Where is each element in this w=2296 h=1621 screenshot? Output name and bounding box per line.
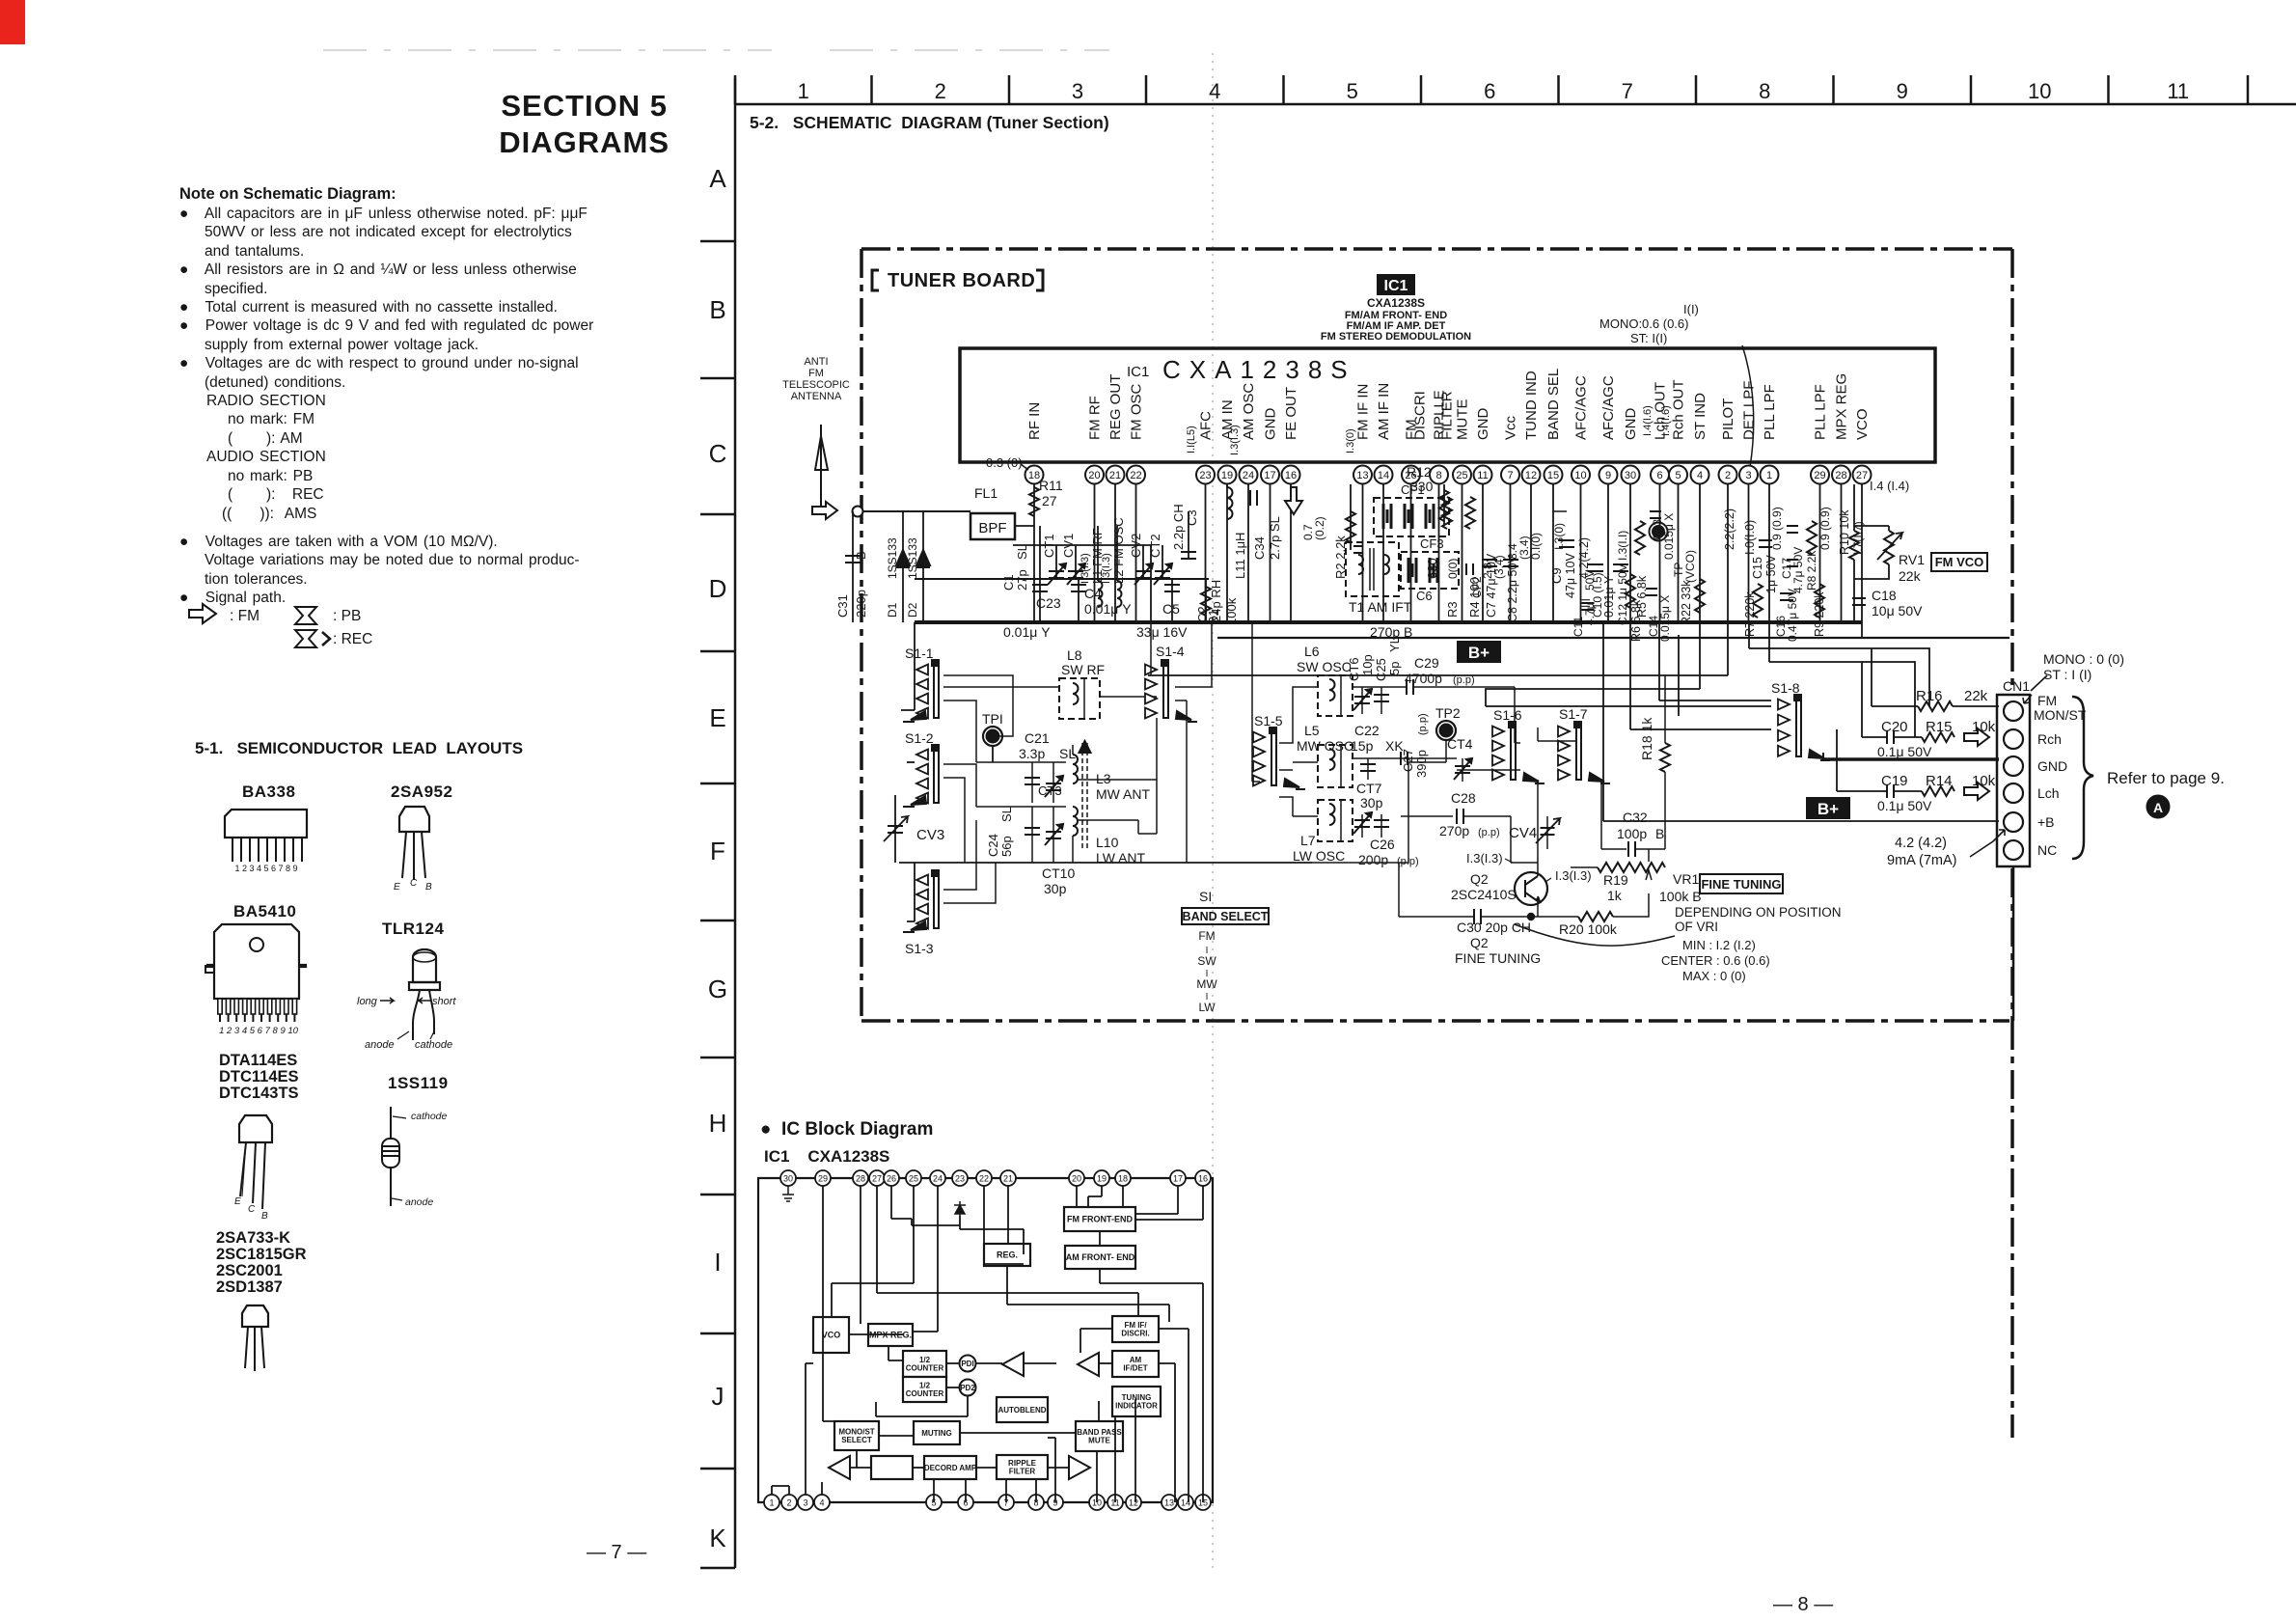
coil L2 FM OSC — [1101, 517, 1126, 607]
svg-text:MONO:0.6 (0.6): MONO:0.6 (0.6) — [1599, 316, 1688, 331]
varicap CV3 — [884, 795, 944, 863]
svg-text:DISCRI.: DISCRI. — [1121, 1330, 1149, 1338]
svg-text:B: B — [425, 882, 432, 893]
capacitor C22 — [1351, 723, 1404, 780]
svg-text:PLL LPF: PLL LPF — [1813, 384, 1829, 440]
svg-text:R9 220k: R9 220k — [1813, 591, 1826, 637]
svg-text:390p: 390p — [1414, 750, 1429, 778]
capacitor CF2 — [1466, 563, 1484, 598]
svg-text:7: 7 — [1622, 79, 1633, 103]
svg-text:R20 100k: R20 100k — [1559, 921, 1618, 937]
block diagram wires — [772, 1186, 1203, 1502]
svg-text:GND: GND — [1623, 408, 1639, 441]
svg-text:CV2: CV2 — [1129, 534, 1143, 558]
coil L1 FM RF — [1080, 526, 1105, 607]
svg-text:56p: 56p — [999, 836, 1014, 857]
svg-text:FILTER: FILTER — [1009, 1468, 1036, 1476]
svg-text:TUNER BOARD: TUNER BOARD — [888, 270, 1035, 291]
svg-text:R12: R12 — [1407, 464, 1432, 480]
potentiometer RV1 — [1854, 526, 1925, 584]
svg-text:0.015μ X: 0.015μ X — [1662, 513, 1676, 560]
svg-text:2.2p CH: 2.2p CH — [1171, 504, 1186, 550]
scan top edge artifact — [323, 49, 1109, 51]
refer brace — [2072, 697, 2225, 859]
svg-text:0.01μ Y: 0.01μ Y — [1602, 575, 1616, 618]
svg-text:C29: C29 — [1414, 655, 1439, 671]
diode D1 — [886, 511, 910, 622]
svg-text:2SA733-K: 2SA733-K — [216, 1229, 290, 1247]
block: unnamed — [871, 1456, 913, 1479]
svg-text:ANTENNA: ANTENNA — [791, 391, 842, 402]
capacitor C26 — [1358, 837, 1419, 867]
svg-text:I.3(0): I.3(0) — [1345, 428, 1356, 453]
svg-text:IC1: IC1 — [1127, 364, 1149, 380]
test point TP VCO — [1650, 523, 1698, 584]
transistors 2SA733-K group — [216, 1229, 307, 1371]
svg-text:LW OSC: LW OSC — [1293, 848, 1345, 864]
svg-text:FINE TUNING: FINE TUNING — [1455, 950, 1541, 966]
block: AM IF DET — [1112, 1351, 1159, 1377]
svg-text:C21: C21 — [1025, 730, 1050, 746]
svg-text:AFC/AGC: AFC/AGC — [1600, 375, 1617, 440]
svg-text:100p: 100p — [1617, 826, 1647, 841]
svg-text:C18: C18 — [1872, 588, 1897, 603]
svg-text:9mA (7mA): 9mA (7mA) — [1887, 853, 1957, 868]
svg-text:30: 30 — [783, 1174, 793, 1184]
svg-text:Rch: Rch — [2037, 731, 2062, 747]
svg-text:2SC2410S: 2SC2410S — [1451, 887, 1517, 902]
svg-text:K: K — [709, 1524, 726, 1552]
trimmer CT10 — [899, 863, 1312, 896]
svg-text:R19: R19 — [1603, 872, 1628, 888]
svg-text:(p.p): (p.p) — [1417, 713, 1429, 735]
resistor R12 — [1407, 464, 1449, 526]
svg-text:B: B — [261, 1211, 268, 1222]
capacitor C10 — [1579, 564, 1616, 618]
svg-text:FE OUT: FE OUT — [1283, 387, 1299, 440]
svg-text:PD2: PD2 — [960, 1384, 975, 1392]
svg-text:1SS119: 1SS119 — [388, 1074, 449, 1092]
svg-text:DEPENDING ON POSITION: DEPENDING ON POSITION — [1675, 905, 1842, 920]
svg-text:13: 13 — [1356, 470, 1368, 481]
svg-text:MONO/ST: MONO/ST — [838, 1427, 874, 1436]
svg-text:10μ 50V: 10μ 50V — [1872, 603, 1923, 618]
resistor R16 — [1872, 648, 1999, 711]
svg-text:R3: R3 — [1445, 601, 1460, 618]
svg-text:(p.p): (p.p) — [1478, 827, 1500, 838]
svg-text:B+: B+ — [1468, 644, 1490, 662]
svg-text:VCO: VCO — [1854, 408, 1871, 440]
svg-text:B: B — [1655, 826, 1664, 841]
svg-text:ST : I (I): ST : I (I) — [2043, 667, 2091, 682]
svg-text:9: 9 — [1605, 470, 1611, 481]
svg-text:2SA952: 2SA952 — [391, 783, 452, 801]
resistor R1 — [1201, 579, 1239, 625]
svg-text:D2: D2 — [906, 602, 919, 618]
svg-text:1/2: 1/2 — [919, 1356, 931, 1364]
coil L11 — [1227, 484, 1247, 579]
capacitor C27 — [1353, 713, 1457, 778]
svg-text:C5: C5 — [1162, 601, 1180, 617]
main bus — [915, 579, 2009, 638]
GND heavy wire — [1823, 753, 1999, 759]
svg-text:12: 12 — [1525, 470, 1537, 481]
svg-text:33μ 16V: 33μ 16V — [1136, 624, 1188, 640]
block: MONO/ST SELECT — [834, 1421, 879, 1450]
op-amp/IC U1 body — [960, 348, 1935, 462]
diode 1SS119 — [382, 1074, 449, 1208]
svg-text:VR1: VR1 — [1673, 871, 1699, 887]
svg-text:DTC143TS: DTC143TS — [219, 1085, 299, 1102]
band select switch S1 — [1182, 889, 1269, 1014]
svg-text:AFC: AFC — [1198, 411, 1215, 440]
capacitor C34 — [1250, 490, 1282, 560]
svg-text:FM: FM — [1198, 929, 1215, 943]
coil L5 MW OSC — [1293, 723, 1353, 787]
svg-text:2SD1387: 2SD1387 — [216, 1278, 283, 1296]
svg-text:SW: SW — [1197, 954, 1216, 968]
IC BA5410 — [205, 902, 306, 1036]
svg-text:GND: GND — [2037, 758, 2067, 774]
svg-text:T1 AM IFT: T1 AM IFT — [1349, 599, 1412, 615]
trimmer CT7 — [1353, 781, 1389, 838]
svg-text:C6: C6 — [1416, 589, 1433, 603]
svg-text:CN1: CN1 — [2003, 678, 2030, 694]
mute pin labels — [1506, 533, 1543, 560]
svg-text:FM: FM — [808, 368, 824, 379]
svg-text:330: 330 — [1410, 479, 1434, 494]
svg-text:MUTE: MUTE — [1455, 399, 1471, 441]
svg-text:30p: 30p — [1360, 795, 1383, 810]
svg-text:FM IF/: FM IF/ — [1124, 1321, 1147, 1330]
svg-text:50V: 50V — [1583, 570, 1597, 591]
resistor R11 — [986, 455, 1063, 516]
svg-text:ST IND: ST IND — [1692, 393, 1708, 440]
svg-text:C23: C23 — [1036, 595, 1061, 611]
svg-text:13: 13 — [1164, 1498, 1174, 1508]
svg-text:Lch: Lch — [2037, 785, 2060, 801]
svg-text:IF/DET: IF/DET — [1123, 1364, 1147, 1373]
svg-text:FINE TUNING: FINE TUNING — [1701, 877, 1781, 892]
varicap CV1 — [1061, 534, 1085, 585]
potentiometer VR1 — [1632, 849, 1702, 904]
node A marker — [2147, 796, 2170, 818]
block: FM FRONT-END — [1064, 1207, 1135, 1231]
svg-text:18: 18 — [1118, 1174, 1128, 1184]
svg-text:TUND IND: TUND IND — [1523, 371, 1540, 440]
svg-text:BAND SEL: BAND SEL — [1545, 369, 1562, 440]
svg-text:BPF: BPF — [978, 520, 1006, 536]
block: MPX REG — [868, 1324, 913, 1346]
svg-text:47μ 10V: 47μ 10V — [1564, 553, 1577, 598]
svg-text:I.4(I.6): I.4(I.6) — [1660, 405, 1672, 436]
voltage note above pin 3 — [1599, 302, 1754, 467]
svg-text:C30 20p CH: C30 20p CH — [1457, 920, 1531, 935]
ceramic filter CF3 — [1401, 536, 1459, 603]
svg-text:cathode: cathode — [411, 1111, 448, 1122]
svg-text:CT3: CT3 — [1038, 783, 1062, 798]
svg-text:S1-7: S1-7 — [1559, 706, 1588, 722]
capacitor C3 — [1171, 504, 1199, 560]
svg-text:TLR124: TLR124 — [382, 920, 444, 938]
svg-text:100k B: 100k B — [1659, 889, 1702, 904]
svg-text:4.7μ 50V: 4.7μ 50V — [1791, 547, 1805, 593]
svg-text:27: 27 — [1856, 470, 1868, 481]
svg-text:FM STEREO DEMODULATION: FM STEREO DEMODULATION — [1321, 331, 1471, 343]
test point TP1 — [982, 711, 1003, 762]
CN1 connector — [1970, 678, 2087, 1021]
svg-text:MUTE: MUTE — [1088, 1437, 1110, 1445]
fold line — [1212, 53, 1214, 1573]
capacitor C8 — [1503, 555, 1519, 622]
svg-text:4: 4 — [1697, 470, 1703, 481]
CN1 voltage note — [2031, 651, 2124, 691]
svg-text:270p: 270p — [1439, 823, 1469, 838]
signal path legend — [230, 608, 260, 625]
svg-text:R11: R11 — [1039, 478, 1063, 493]
filter FL1 BPF — [970, 485, 1034, 539]
svg-text:I.0(I.0): I.0(I.0) — [1743, 520, 1757, 555]
svg-text:AM: AM — [1130, 1356, 1142, 1364]
svg-text:SW OSC: SW OSC — [1297, 659, 1352, 674]
test point TP2 — [1435, 705, 1461, 762]
capacitor C19 resistor R14 — [1837, 729, 1996, 813]
block: ground pin30 — [782, 1186, 794, 1201]
pll lpf network C17 R8 — [1770, 507, 1832, 593]
capacitor C1 — [1001, 526, 1151, 591]
svg-text:19: 19 — [1221, 470, 1233, 481]
IC1 label — [1321, 274, 1471, 343]
svg-text:6: 6 — [1656, 470, 1662, 481]
transistor Q2 — [1451, 851, 1592, 917]
trimmer CT4 — [1447, 736, 1473, 782]
FM VCO box label — [1931, 553, 1987, 571]
svg-text:anode: anode — [405, 1196, 433, 1208]
block: PD1 PD2 — [960, 1356, 976, 1396]
svg-text:Vcc: Vcc — [1503, 415, 1519, 440]
svg-text:CXA1238S: CXA1238S — [1162, 355, 1356, 384]
svg-text:16: 16 — [1285, 470, 1297, 481]
tuner board border — [861, 249, 2012, 1438]
coil L7 LW OSC — [1293, 800, 1353, 864]
svg-text:DET LPF: DET LPF — [1741, 381, 1758, 440]
svg-text:4.2 (4.2): 4.2 (4.2) — [1895, 836, 1947, 851]
svg-text:25: 25 — [1456, 470, 1467, 481]
capacitor C12 — [1613, 531, 1629, 625]
svg-text:21: 21 — [1003, 1174, 1013, 1184]
band sel label — [1552, 523, 1566, 550]
svg-text:Refer to page 9.: Refer to page 9. — [2107, 769, 2225, 787]
svg-text:9: 9 — [1897, 79, 1908, 103]
svg-text:RF IN: RF IN — [1026, 402, 1043, 440]
svg-text:20: 20 — [1072, 1174, 1081, 1184]
capacitors C23 C4 C5 row — [1003, 579, 1412, 640]
svg-text:29: 29 — [1814, 470, 1825, 481]
svg-text:S1-3: S1-3 — [905, 941, 934, 956]
svg-text:L2 FM OSC: L2 FM OSC — [1111, 517, 1126, 584]
svg-text:0.01μ Y: 0.01μ Y — [1003, 624, 1051, 640]
pin drop wires — [1034, 484, 1862, 622]
svg-text:B: B — [709, 295, 725, 324]
svg-text:GND: GND — [1475, 408, 1491, 441]
capacitor C21 trimmer CT3 — [976, 730, 1076, 803]
svg-text:0.47μ 50V: 0.47μ 50V — [1786, 589, 1799, 642]
capacitor C32 — [1601, 810, 1665, 857]
svg-text:C: C — [709, 439, 727, 468]
svg-text:DECORD AMP: DECORD AMP — [924, 1464, 977, 1472]
svg-text:anode: anode — [365, 1039, 395, 1051]
block: FM IF DISCRI — [1112, 1316, 1159, 1342]
svg-text:SL: SL — [1015, 544, 1029, 560]
resistor R20 — [1528, 893, 1649, 937]
column ruler — [735, 75, 2296, 104]
diode D2 — [906, 511, 930, 622]
svg-text:C7 47μ 10V: C7 47μ 10V — [1485, 553, 1498, 618]
svg-text:19: 19 — [1097, 1174, 1107, 1184]
coil L6 SW OSC — [1297, 644, 1353, 716]
svg-text:PILOT: PILOT — [1720, 398, 1736, 440]
FM signal arrow into pin16 — [1285, 487, 1326, 540]
svg-text:1: 1 — [769, 1498, 774, 1508]
svg-text:F: F — [710, 837, 725, 865]
svg-text:15p: 15p — [1351, 738, 1374, 754]
svg-text:RV1: RV1 — [1899, 552, 1925, 567]
block diagram top pins — [780, 1170, 1211, 1186]
svg-text:AUTOBLEND: AUTOBLEND — [998, 1406, 1046, 1415]
capacitor C18 — [1852, 588, 1923, 618]
svg-text:22: 22 — [1130, 470, 1141, 481]
svg-text:MAX : 0 (0): MAX : 0 (0) — [1682, 969, 1746, 983]
svg-text:Rch OUT: Rch OUT — [1671, 379, 1687, 440]
svg-text:1SS133: 1SS133 — [906, 537, 919, 579]
B+ label 1 — [1457, 641, 1501, 663]
capacitor C7 — [1482, 553, 1498, 618]
svg-text:E: E — [709, 703, 725, 732]
capacitor C11 — [1572, 570, 1597, 637]
capacitor C30 — [1399, 909, 1531, 935]
svg-text:L7: L7 — [1300, 833, 1316, 848]
capacitor C31 — [835, 511, 868, 622]
svg-text:FM: FM — [2037, 693, 2057, 708]
B+ label 2 — [1806, 797, 1850, 819]
svg-text:S1-6: S1-6 — [1493, 707, 1522, 723]
IC1 pin names — [1026, 369, 1871, 455]
svg-text:C34: C34 — [1252, 536, 1267, 560]
5-2 heading — [750, 113, 1109, 133]
resistor R19 — [1571, 863, 1632, 903]
bus staircase wires — [1148, 622, 1999, 821]
svg-text:0.I(0): 0.I(0) — [1529, 533, 1543, 560]
svg-text:J: J — [712, 1382, 724, 1411]
svg-text:R22 33k: R22 33k — [1680, 580, 1693, 625]
block: AM FRONT-END — [1065, 1246, 1135, 1269]
svg-text:(VCO): (VCO) — [1683, 550, 1697, 583]
svg-text:Q2: Q2 — [1470, 935, 1489, 950]
svg-text:FM OSC: FM OSC — [1129, 384, 1145, 440]
svg-text:C22: C22 — [1354, 723, 1380, 738]
switch S1-1 — [901, 622, 939, 722]
transistor 2SA952 — [391, 783, 452, 893]
svg-text:SW RF: SW RF — [1061, 662, 1105, 677]
svg-text:S1-8: S1-8 — [1771, 680, 1800, 696]
svg-text:C: C — [410, 878, 418, 889]
svg-text:0.015μ X: 0.015μ X — [1658, 595, 1672, 642]
svg-text:100k: 100k — [1224, 597, 1239, 625]
svg-text:D: D — [709, 574, 727, 603]
svg-text:(0.2): (0.2) — [1313, 516, 1326, 540]
svg-text:TELESCOPIC: TELESCOPIC — [782, 379, 850, 391]
switch S1-4 — [1145, 622, 1197, 722]
svg-text:MIN : I.2 (I.2): MIN : I.2 (I.2) — [1682, 938, 1756, 952]
block: VCO — [813, 1317, 849, 1353]
svg-text:R4 100: R4 100 — [1467, 577, 1482, 618]
svg-text:CT1: CT1 — [1042, 534, 1056, 558]
svg-text:E: E — [394, 882, 400, 893]
svg-text:CENTER : 0.6 (0.6): CENTER : 0.6 (0.6) — [1661, 953, 1770, 968]
svg-text:FM FRONT-END: FM FRONT-END — [1067, 1215, 1133, 1224]
svg-text:FL1: FL1 — [974, 485, 998, 501]
svg-text:AFC/AGC: AFC/AGC — [1573, 375, 1590, 440]
svg-text:R1: R1 — [1206, 609, 1220, 625]
svg-text:2SC1815GR: 2SC1815GR — [216, 1246, 307, 1263]
IC block diagram outer — [758, 1178, 1213, 1502]
svg-text:1: 1 — [798, 79, 809, 103]
svg-text:C1: C1 — [1001, 574, 1016, 591]
svg-text:R7 220k: R7 220k — [1743, 591, 1757, 637]
svg-text:17: 17 — [1264, 470, 1275, 481]
svg-text:2: 2 — [935, 79, 946, 103]
svg-text:C32: C32 — [1623, 810, 1648, 825]
capacitor C13 — [1650, 511, 1676, 560]
svg-text:I.3(I.3): I.3(I.3) — [1229, 425, 1241, 455]
resistor R22 — [1680, 579, 1705, 625]
svg-text:28: 28 — [856, 1174, 865, 1184]
svg-text:C31: C31 — [835, 594, 850, 618]
svg-text:ST: I(I): ST: I(I) — [1630, 331, 1667, 345]
svg-text:short: short — [432, 996, 456, 1007]
svg-text:22k: 22k — [1899, 568, 1922, 584]
resistor R18 — [1639, 675, 1670, 849]
svg-text:220p: 220p — [854, 590, 868, 618]
svg-text:TP2: TP2 — [1435, 705, 1461, 721]
svg-text:4700p: 4700p — [1405, 671, 1442, 686]
svg-text:16: 16 — [1198, 1174, 1208, 1184]
svg-text:+B: +B — [2037, 814, 2055, 830]
svg-text:REG OUT: REG OUT — [1107, 374, 1124, 440]
svg-text:L8: L8 — [1067, 647, 1082, 663]
svg-text:0.9 (0.9): 0.9 (0.9) — [1770, 507, 1784, 550]
page number 8 — [1773, 1594, 1833, 1616]
svg-text:S1-1: S1-1 — [905, 646, 934, 661]
svg-text:I.3(I.3): I.3(I.3) — [1555, 868, 1592, 883]
IC1 pin row — [1025, 466, 1872, 484]
svg-text:DISCRI: DISCRI — [1412, 391, 1429, 440]
tuner board label — [872, 270, 1043, 291]
resistor R4 — [1465, 497, 1506, 618]
svg-text:0.1μ 50V: 0.1μ 50V — [1877, 798, 1932, 813]
svg-text:PLL LPF: PLL LPF — [1762, 384, 1778, 440]
svg-text:COUNTER: COUNTER — [906, 1389, 944, 1398]
block diagram amplifiers — [829, 1353, 1099, 1479]
svg-text:680: 680 — [1425, 558, 1439, 579]
svg-text:I: I — [714, 1248, 721, 1277]
svg-text:MUTING: MUTING — [921, 1429, 952, 1438]
trimmer CT6 — [1347, 654, 1375, 714]
svg-text:CV3: CV3 — [916, 827, 944, 843]
svg-text:AM FRONT- END: AM FRONT- END — [1066, 1252, 1135, 1262]
capacitor C24 — [976, 807, 1066, 863]
svg-text:I.I(L5): I.I(L5) — [1186, 426, 1197, 453]
